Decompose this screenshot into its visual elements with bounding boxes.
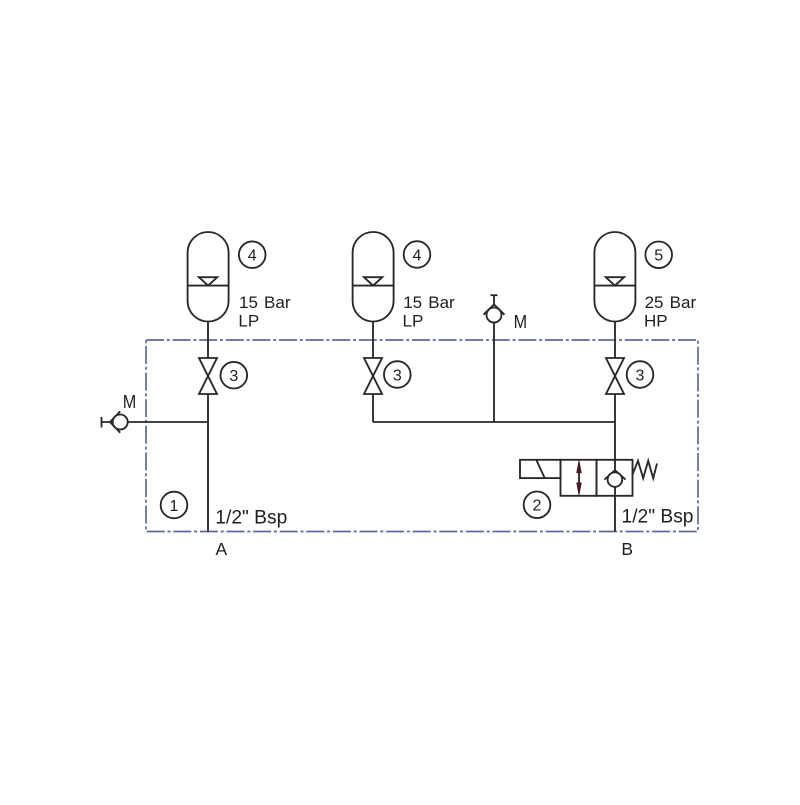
solenoid coil diagonal — [537, 460, 545, 477]
accumulator ACC2 shell (item 4) — [353, 232, 394, 322]
wire: test point M1 branch to node A line — [102, 421, 209, 423]
balloon 3 at valve V2 — [384, 361, 411, 388]
svg-text:2: 2 — [533, 498, 542, 515]
svg-text:1: 1 — [170, 498, 179, 515]
test point M2 stem — [493, 295, 495, 306]
test point M2 end tick — [491, 294, 498, 296]
svg-text:A: A — [216, 539, 228, 559]
balloon 1 (manifold) — [161, 492, 188, 519]
valve item 2 flow arrow shaft — [578, 469, 580, 487]
isolation valve V3 (item 3) — [606, 358, 624, 394]
svg-text:25 Bar: 25 Bar — [645, 293, 697, 312]
balloon 3 at valve V3 — [627, 361, 654, 388]
test point M1 body — [113, 415, 128, 430]
svg-text:15 Bar: 15 Bar — [239, 293, 291, 312]
svg-text:HP: HP — [644, 312, 668, 331]
svg-text:4: 4 — [413, 247, 422, 264]
svg-text:3: 3 — [393, 367, 402, 384]
svg-text:4: 4 — [248, 248, 257, 265]
test point M1 seat — [110, 411, 120, 433]
svg-text:3: 3 — [636, 367, 645, 384]
balloon 2 (solenoid valve) — [524, 492, 551, 519]
svg-text:M: M — [123, 392, 137, 412]
svg-text:5: 5 — [654, 248, 663, 265]
wire: accumulator ACC1 stem to valve V1 — [207, 322, 209, 359]
wire: valve V2 drop to gallery — [372, 394, 374, 422]
solenoid coil of valve item 2 — [520, 460, 561, 478]
accumulator ACC3 shell (item 5) — [594, 232, 635, 322]
wire: valve V1 down to port A — [207, 394, 209, 532]
wire: test point M2 drop to gallery — [493, 320, 495, 422]
svg-text:LP: LP — [238, 312, 259, 331]
valve item 2 flow arrow head up — [577, 461, 582, 473]
manifold boundary (item 1 envelope) — [146, 340, 698, 532]
accumulator ACC1 gas triangle — [199, 277, 217, 285]
accumulator ACC3 gas triangle — [606, 277, 624, 285]
wire: valve V3 down through solenoid valve to port B — [614, 394, 616, 532]
wire: gallery from V2 drop to node B line — [373, 421, 615, 423]
svg-text:3: 3 — [229, 368, 238, 385]
accumulator ACC3 separator line — [594, 285, 635, 287]
test point M2 seat — [484, 304, 505, 314]
svg-text:M: M — [514, 312, 528, 332]
check valve seat in box 2 — [604, 470, 625, 479]
check valve poppet ball — [608, 472, 623, 487]
test point M1 end tick — [101, 417, 103, 428]
balloon 5 at ACC3 — [645, 242, 672, 269]
balloon 4 at ACC1 — [239, 241, 266, 268]
accumulator ACC1 separator line — [188, 285, 229, 287]
svg-text:LP: LP — [403, 312, 424, 331]
wire: accumulator ACC2 stem to valve V2 — [372, 322, 374, 359]
valve item 2 flow arrow head down — [577, 483, 582, 495]
balloon 3 at valve V1 — [221, 362, 248, 389]
wire: accumulator ACC3 stem to valve V3 — [614, 322, 616, 359]
accumulator ACC2 separator line — [353, 285, 394, 287]
svg-text:1/2" Bsp: 1/2" Bsp — [215, 508, 287, 529]
balloon 4 at ACC2 — [404, 241, 431, 268]
svg-text:B: B — [621, 539, 633, 559]
svg-text:15 Bar: 15 Bar — [403, 293, 455, 312]
accumulator ACC1 shell (item 4) — [188, 232, 229, 322]
isolation valve V2 (item 3) — [364, 358, 382, 394]
valve item 2 position box 1 — [561, 460, 597, 496]
test point M2 body — [487, 308, 502, 323]
valve item 2 return spring — [633, 461, 658, 479]
valve item 2 position box 2 — [597, 460, 633, 496]
svg-text:1/2" Bsp: 1/2" Bsp — [622, 507, 694, 528]
accumulator ACC2 gas triangle — [364, 277, 382, 285]
isolation valve V1 (item 3) — [199, 358, 217, 394]
